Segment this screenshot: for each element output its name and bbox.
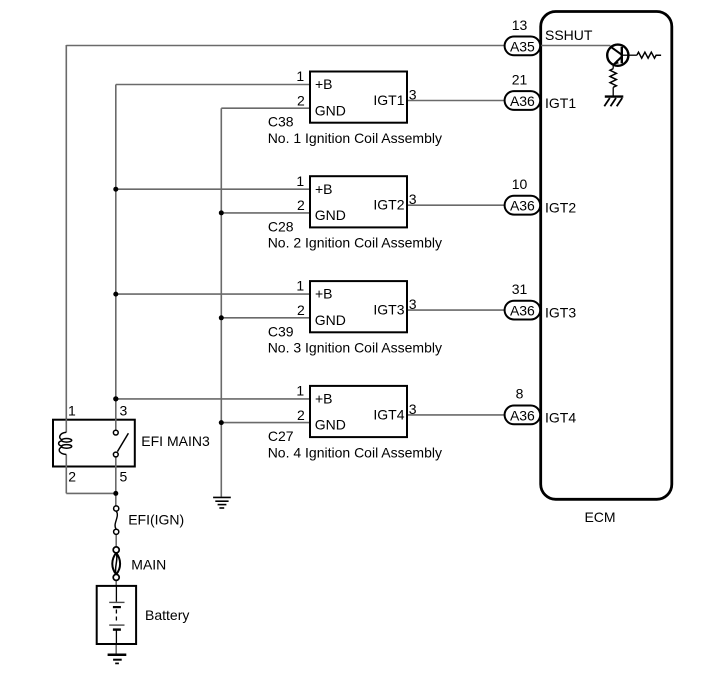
svg-text:MAIN: MAIN [131, 556, 166, 572]
svg-text:IGT1: IGT1 [373, 92, 404, 108]
svg-text:No. 3 Ignition Coil Assembly: No. 3 Ignition Coil Assembly [268, 340, 442, 356]
svg-text:+B: +B [315, 76, 333, 92]
svg-text:C39: C39 [268, 323, 294, 339]
svg-text:GND: GND [315, 207, 346, 223]
svg-text:C27: C27 [268, 428, 294, 444]
svg-text:GND: GND [315, 417, 346, 433]
svg-text:5: 5 [120, 469, 128, 485]
svg-text:+B: +B [315, 286, 333, 302]
svg-text:ECM: ECM [584, 509, 615, 525]
svg-text:2: 2 [297, 197, 305, 213]
svg-text:A36: A36 [510, 198, 535, 214]
svg-text:A36: A36 [510, 407, 535, 423]
svg-text:IGT2: IGT2 [373, 197, 404, 213]
svg-text:A36: A36 [510, 93, 535, 109]
svg-text:3: 3 [409, 401, 417, 417]
svg-text:1: 1 [296, 68, 304, 84]
svg-text:2: 2 [297, 302, 305, 318]
svg-text:IGT3: IGT3 [545, 305, 576, 321]
svg-text:Battery: Battery [145, 607, 189, 623]
svg-text:IGT4: IGT4 [545, 409, 576, 425]
svg-text:C38: C38 [268, 114, 294, 130]
svg-text:2: 2 [68, 469, 76, 485]
svg-text:IGT4: IGT4 [373, 406, 404, 422]
svg-text:IGT2: IGT2 [545, 200, 576, 216]
svg-text:EFI(IGN): EFI(IGN) [128, 512, 184, 528]
svg-text:+B: +B [315, 181, 333, 197]
svg-text:IGT3: IGT3 [373, 302, 404, 318]
svg-text:A36: A36 [510, 303, 535, 319]
svg-text:No. 2 Ignition Coil Assembly: No. 2 Ignition Coil Assembly [268, 235, 442, 251]
svg-text:3: 3 [409, 191, 417, 207]
svg-text:1: 1 [68, 403, 76, 419]
svg-text:1: 1 [296, 278, 304, 294]
svg-text:2: 2 [297, 407, 305, 423]
svg-text:IGT1: IGT1 [545, 95, 576, 111]
svg-text:C28: C28 [268, 218, 294, 234]
svg-text:21: 21 [512, 71, 528, 87]
svg-text:1: 1 [296, 173, 304, 189]
svg-text:GND: GND [315, 312, 346, 328]
svg-text:13: 13 [512, 17, 528, 33]
svg-text:EFI MAIN3: EFI MAIN3 [141, 433, 210, 449]
svg-text:1: 1 [296, 383, 304, 399]
svg-text:8: 8 [516, 386, 524, 402]
svg-text:3: 3 [409, 296, 417, 312]
svg-text:3: 3 [409, 87, 417, 103]
svg-text:No. 1 Ignition Coil Assembly: No. 1 Ignition Coil Assembly [268, 130, 442, 146]
svg-text:No. 4 Ignition Coil Assembly: No. 4 Ignition Coil Assembly [268, 444, 442, 460]
svg-text:GND: GND [315, 102, 346, 118]
svg-text:3: 3 [120, 403, 128, 419]
svg-text:A35: A35 [510, 38, 535, 54]
svg-text:31: 31 [512, 281, 528, 297]
svg-text:10: 10 [512, 176, 528, 192]
svg-text:+B: +B [315, 391, 333, 407]
svg-text:2: 2 [297, 92, 305, 108]
svg-text:SSHUT: SSHUT [545, 27, 593, 43]
